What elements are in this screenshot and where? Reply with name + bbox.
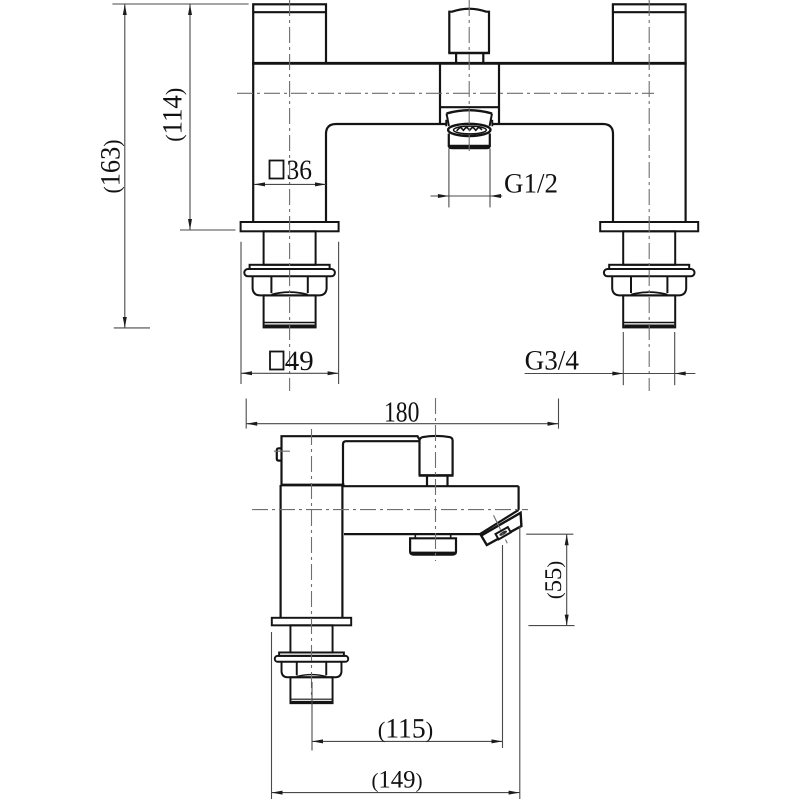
svg-text:(149): (149) <box>372 767 423 794</box>
svg-text:(55): (55) <box>541 561 567 599</box>
centerline left leg (front) <box>289 0 291 391</box>
tap body bridge and legs (front view) <box>252 63 686 222</box>
aerator under spout (side view) <box>410 534 456 554</box>
arrows (115) <box>312 739 323 743</box>
arrows square49 <box>241 371 252 375</box>
svg-text:(114): (114) <box>158 88 189 142</box>
svg-text:G1/2: G1/2 <box>504 169 558 200</box>
outlet axis centerline (side view) <box>494 515 508 543</box>
dimension G3/4 lines <box>622 332 624 385</box>
dimension (55) lines <box>526 533 573 535</box>
arrows (149) <box>272 791 283 795</box>
dimension (149) lines <box>272 792 520 794</box>
spout body (side view) <box>342 486 519 534</box>
svg-text:180: 180 <box>384 397 419 429</box>
horizontal centerline (side view) <box>252 509 528 511</box>
aerator lower cylinder (front view) <box>448 134 450 147</box>
dimension (163) lines <box>124 4 126 328</box>
arrows <box>123 4 686 795</box>
svg-text:(163): (163) <box>96 140 127 194</box>
arrows 180 <box>246 422 257 426</box>
svg-text:36: 36 <box>287 155 313 186</box>
arrows (55) <box>565 534 569 545</box>
dimension square49 lines <box>240 242 242 384</box>
svg-text:G3/4: G3/4 <box>525 345 579 376</box>
handle (side view) <box>277 436 420 485</box>
arrows (163) <box>123 4 127 15</box>
centerline right leg (front) <box>648 0 650 391</box>
svg-text:(115): (115) <box>378 714 434 745</box>
handle left (front view) <box>253 4 326 63</box>
center valve body (front view) <box>440 63 499 123</box>
spout aerator cup (front view) <box>446 110 492 148</box>
right leg shank assembly (front view) <box>600 222 698 327</box>
diverter knob (side view) <box>419 436 454 486</box>
handle tab center mark (side view) <box>274 450 290 452</box>
dimension (115) lines <box>312 740 503 742</box>
arrows G3/4 (outside) <box>612 372 623 376</box>
horizontal centerline (front) <box>237 92 654 94</box>
label square49 <box>270 352 284 370</box>
dimension (114) lines <box>189 4 191 230</box>
arrows (114) <box>188 4 192 15</box>
dimension G1/2 lines <box>448 149 450 208</box>
side view leg shank assembly <box>272 618 351 703</box>
centerline spout (front) <box>468 0 470 153</box>
handle right (front view) <box>613 4 686 63</box>
dimension square36 line <box>254 183 326 185</box>
vertical leg (side view) <box>281 485 343 618</box>
diverter knob (front view) <box>448 9 490 64</box>
cartridge housing behind handle (side view) <box>343 441 419 485</box>
top extension line <box>112 3 248 5</box>
arrows G1/2 (outside) <box>438 194 449 198</box>
left leg shank assembly (front view) <box>241 222 339 327</box>
aerator star pattern <box>457 127 482 131</box>
bath spout outlet (side view) <box>481 513 521 545</box>
centerline knob/aerator (side view) <box>435 398 437 561</box>
label square36 <box>270 161 284 179</box>
svg-text:49: 49 <box>285 346 314 377</box>
arrows square36 <box>254 182 265 186</box>
centerline leg (side view) <box>311 429 313 700</box>
dimension 180 lines <box>245 399 247 429</box>
